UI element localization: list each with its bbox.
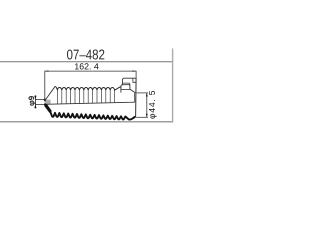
arrowhead phi9 top (34, 96, 36, 99)
neck end block (gray) (45, 100, 51, 105)
neck outline phi9 tube (35, 99, 45, 104)
table rule top (0, 61, 173, 63)
extension line right (135, 71, 137, 79)
cap right wall inner (134, 93, 136, 102)
cap collar (outer rim near side) (121, 85, 136, 93)
dimension line 162.4 (45, 71, 136, 100)
cap lip near-rim lower edge (123, 83, 130, 85)
dimension label phi 44.5 (rotated) (149, 91, 157, 119)
extension line left (44, 71, 46, 100)
cap lip slot inner wall (133, 78, 136, 82)
phi 44.5 dimension extension lines (136, 93, 148, 117)
dimension label phi 9 (rotated) (29, 96, 36, 106)
arrowhead left of 162.4 (45, 70, 49, 71)
cap inner lip tube (122, 78, 136, 85)
arrowhead phi9 bottom (34, 105, 36, 108)
neck junction blob (44, 99, 46, 101)
wave start wedge (44, 104, 52, 113)
cap collar bottom near edge (121, 88, 130, 90)
cone top edge from neck to first peak (45, 86, 55, 100)
arrowhead right of 162.4 (133, 70, 137, 71)
phi9 dimension line with outside arrows (34, 95, 36, 108)
part number title 07-482 (67, 49, 104, 59)
arrowhead phi44.5 top (146, 93, 148, 97)
cap right wall outer (135, 78, 138, 117)
arrowhead phi44.5 bottom (146, 114, 148, 118)
table rule bottom (0, 121, 173, 123)
dimension label 162.4 (75, 63, 99, 69)
table border right (172, 49, 174, 122)
cap last-dome V notch (119, 87, 122, 89)
bellows top domes (55, 86, 120, 90)
bellows corrugation verticals (57, 90, 114, 104)
bellows bottom line (45, 102, 135, 104)
bottom wavy silhouette (thick) (45, 104, 135, 119)
